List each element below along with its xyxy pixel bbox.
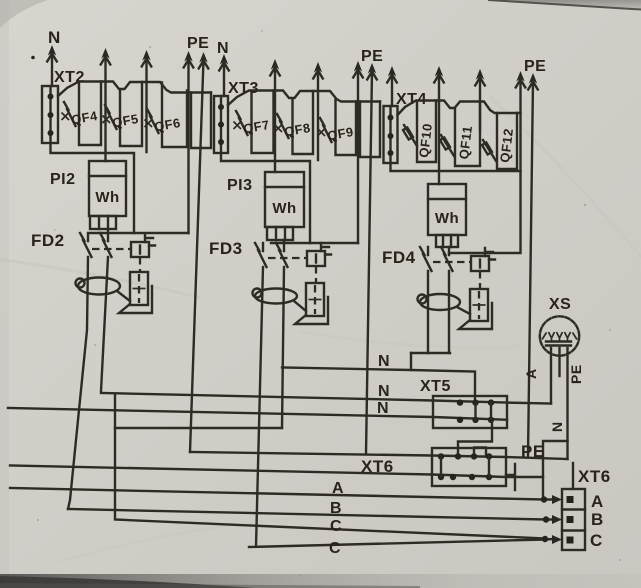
FD3 test resistor xyxy=(306,283,324,316)
outgoing arrow above QF7 xyxy=(271,59,279,70)
wire N arrow to XT2 xyxy=(51,53,53,86)
wire XS PE down xyxy=(566,348,568,459)
FD3 trip linkage dashed xyxy=(268,257,307,259)
outgoing arrow above QF5 xyxy=(142,50,150,61)
wire XT4 bottom bus xyxy=(391,163,521,171)
FD4 toroid current transformer xyxy=(420,294,460,310)
outgoing arrow above QF9 xyxy=(354,61,362,72)
energy meter section 3 xyxy=(428,184,466,235)
breaker cell QF11 xyxy=(455,102,480,166)
outgoing arrow above QF8 xyxy=(314,62,322,73)
svg-text:Wh: Wh xyxy=(272,200,296,217)
svg-text:N: N xyxy=(48,28,61,47)
FD3 toroid current transformer xyxy=(255,289,297,304)
RCD FD2 right pole xyxy=(100,229,112,391)
wire PE section3 down to PE bus xyxy=(528,81,533,456)
terminal block XT6 (bottom right) xyxy=(562,463,611,550)
FD4 toroid to resistor wire xyxy=(457,307,470,314)
wire XS neutral down xyxy=(550,348,552,404)
outgoing arrow above QF4 xyxy=(101,48,109,59)
RCD FD2 left pole xyxy=(68,233,92,509)
wire connecting row1 branch down to C bus xyxy=(115,394,546,539)
RCD FD4 right pole xyxy=(441,247,453,353)
terminal block XT4 xyxy=(384,91,427,163)
FD4 trip linkage dashed xyxy=(433,261,471,263)
svg-text:PI2: PI2 xyxy=(50,171,76,188)
scan dark edge top-right corner xyxy=(489,0,641,9)
breaker cell QF6 xyxy=(162,83,187,148)
wire phase C2 line (from FD3 left pole) xyxy=(249,539,553,547)
FD2 dashed link to test resistor xyxy=(139,257,141,272)
connector bridge XT5 to XT6 right xyxy=(474,448,486,457)
FD4 test resistor xyxy=(470,289,488,321)
arrow into XT6 A xyxy=(552,495,562,504)
energy meter PI2 xyxy=(50,161,126,229)
wire QF8 arrow down xyxy=(317,70,319,160)
node N (incoming neutral, section 1) xyxy=(47,28,61,62)
outgoing arrow above QF11 xyxy=(476,69,484,80)
wire QF9 arrow down to FD3 feed xyxy=(357,69,359,243)
busbar humps section 2 xyxy=(228,91,380,106)
svg-text:C: C xyxy=(329,540,341,557)
breaker QF5 xyxy=(103,105,140,130)
RCD FD3 left pole xyxy=(255,243,267,547)
stray mark left of N arrow xyxy=(31,56,35,60)
wire XS middle stub xyxy=(558,348,560,376)
breaker cell QF12 xyxy=(497,113,517,169)
svg-text:FD2: FD2 xyxy=(31,231,65,250)
busbar humps section 3 xyxy=(398,101,521,116)
svg-text:N: N xyxy=(378,383,390,400)
breaker cell QF9 xyxy=(336,100,357,156)
svg-text:A: A xyxy=(523,368,539,379)
breaker QF7 xyxy=(234,111,271,136)
wire PE bus xyxy=(190,452,568,459)
FD2 test resistor xyxy=(130,272,148,305)
breaker cell QF10 xyxy=(417,101,436,163)
wire XT3 bottom loop around meter xyxy=(221,153,310,243)
svg-text:N: N xyxy=(549,421,565,432)
node PE (section 2 outgoing) xyxy=(361,48,383,80)
FD4 trip unit xyxy=(471,256,489,271)
wire FD4 poles joining bar xyxy=(411,352,450,354)
svg-text:PI3: PI3 xyxy=(227,177,253,194)
breaker QF10 (rotated label) xyxy=(403,122,435,158)
outgoing arrow above QF6 xyxy=(184,51,192,62)
wire XT2 bottom loop around meter xyxy=(51,143,135,233)
RCD FD3 right pole xyxy=(276,240,288,428)
wire QF7 arrow to meter PI3 xyxy=(274,67,276,172)
wire QF10 arrow to meter xyxy=(438,74,440,184)
wire N line FD3/FD4 to XT5 xyxy=(282,368,475,402)
breaker QF11 (rotated label) xyxy=(440,125,475,160)
node PE (section 1 outgoing) xyxy=(187,35,209,69)
breaker QF8 xyxy=(275,114,312,139)
wire phase B bus (from FD2 left pole) xyxy=(68,509,553,520)
wire N down to XT4 xyxy=(391,74,393,106)
FD2 trip linkage dashed xyxy=(92,248,131,250)
node PE (section 3 outgoing) xyxy=(524,58,546,90)
FD3 toroid to resistor wire xyxy=(294,301,306,311)
breaker QF9 xyxy=(318,118,355,143)
breaker QF12 (rotated label) xyxy=(482,127,516,163)
wire small box near PE corner xyxy=(543,441,568,500)
wire QF12 arrow down right side to FD4 feed xyxy=(449,79,521,253)
junction dot C xyxy=(542,536,548,542)
node N (to XT3) xyxy=(217,40,229,71)
svg-text:A: A xyxy=(591,492,604,511)
FD2 trip unit xyxy=(131,242,149,257)
wire PE section1 down to PE bus xyxy=(190,60,204,452)
breaker cell QF5 xyxy=(120,82,142,146)
breaker cell right (section 1) xyxy=(191,93,211,149)
wire neutral row1: FD2 to XT5 row1 to XS xyxy=(101,393,551,404)
svg-text:XT6: XT6 xyxy=(361,457,394,476)
wire QF4 arrow to meter PI2 xyxy=(104,56,106,161)
svg-text:N: N xyxy=(217,40,229,57)
svg-text:C: C xyxy=(330,518,342,535)
svg-text:PE: PE xyxy=(521,442,545,461)
scan dark edge bottom xyxy=(0,574,641,588)
svg-text:FD3: FD3 xyxy=(209,239,243,258)
wire PE section2 down to PE bus xyxy=(366,71,372,454)
node N (to XT4) arrow xyxy=(388,66,396,77)
wire bus to XT6 row2 xyxy=(10,466,543,478)
svg-text:XT5: XT5 xyxy=(420,378,451,395)
wire QF6 arrow down to FD2 feed xyxy=(187,59,189,233)
wire N down to XT3 xyxy=(223,62,225,96)
wire QF5 arrow down xyxy=(145,58,147,152)
FD2 toroid to resistor wire xyxy=(117,291,130,301)
svg-text:PE: PE xyxy=(524,58,546,75)
svg-text:Wh: Wh xyxy=(435,210,459,227)
energy meter PI3 xyxy=(227,172,304,240)
svg-text:B: B xyxy=(330,500,342,517)
outgoing arrow above QF10 xyxy=(435,66,443,77)
svg-text:PE: PE xyxy=(187,35,209,52)
breaker cell QF7 xyxy=(252,91,274,154)
svg-text:B: B xyxy=(591,510,604,529)
svg-text:PE: PE xyxy=(361,48,383,65)
svg-text:N: N xyxy=(378,353,390,370)
breaker cell QF4 xyxy=(79,82,101,146)
FD3 dashed link to test resistor xyxy=(315,266,317,283)
FD3 trip unit xyxy=(307,251,325,266)
svg-text:FD4: FD4 xyxy=(382,248,416,267)
terminal block XT6 (middle) xyxy=(361,448,515,490)
RCD FD4 left pole xyxy=(420,247,432,353)
svg-text:XT2: XT2 xyxy=(54,69,85,86)
svg-text:A: A xyxy=(332,480,344,497)
terminal block XT2 xyxy=(42,69,85,143)
breaker QF4 xyxy=(62,102,100,127)
arrow into XT6 B xyxy=(552,515,562,524)
wire QF11 arrow down xyxy=(479,77,481,130)
wire cross link FD3 right pole xyxy=(115,427,282,429)
arrow into XT6 C xyxy=(552,535,562,544)
junction dot A xyxy=(541,496,547,502)
connector step XT5 to XT6 xyxy=(458,420,492,456)
terminal block XT3 xyxy=(214,80,259,153)
FD4 dashed link to test resistor xyxy=(479,271,481,289)
svg-text:PE: PE xyxy=(568,364,584,384)
outgoing arrow above QF12 xyxy=(516,71,524,82)
svg-text:XS: XS xyxy=(549,296,571,313)
breaker cell QF8 xyxy=(293,91,314,154)
wire feed line FD3 xyxy=(271,242,358,244)
socket XS xyxy=(540,296,579,356)
wire feed line FD2 xyxy=(90,232,189,234)
svg-text:N: N xyxy=(377,400,389,417)
busbar humps section 1 xyxy=(58,82,211,97)
svg-text:XT6: XT6 xyxy=(578,467,611,486)
svg-text:C: C xyxy=(590,531,603,550)
breaker cell right (section 2) xyxy=(360,102,380,158)
wire phase A bus xyxy=(10,488,553,500)
terminal block XT5 xyxy=(420,378,507,428)
FD2 toroid current transformer xyxy=(78,278,120,295)
wire FD4 N step down xyxy=(410,353,412,370)
junction dot B xyxy=(543,516,549,522)
wire neutral row2: page left to XT5 row2 xyxy=(8,408,507,420)
svg-text:Wh: Wh xyxy=(95,189,119,206)
breaker QF6 xyxy=(145,109,182,134)
